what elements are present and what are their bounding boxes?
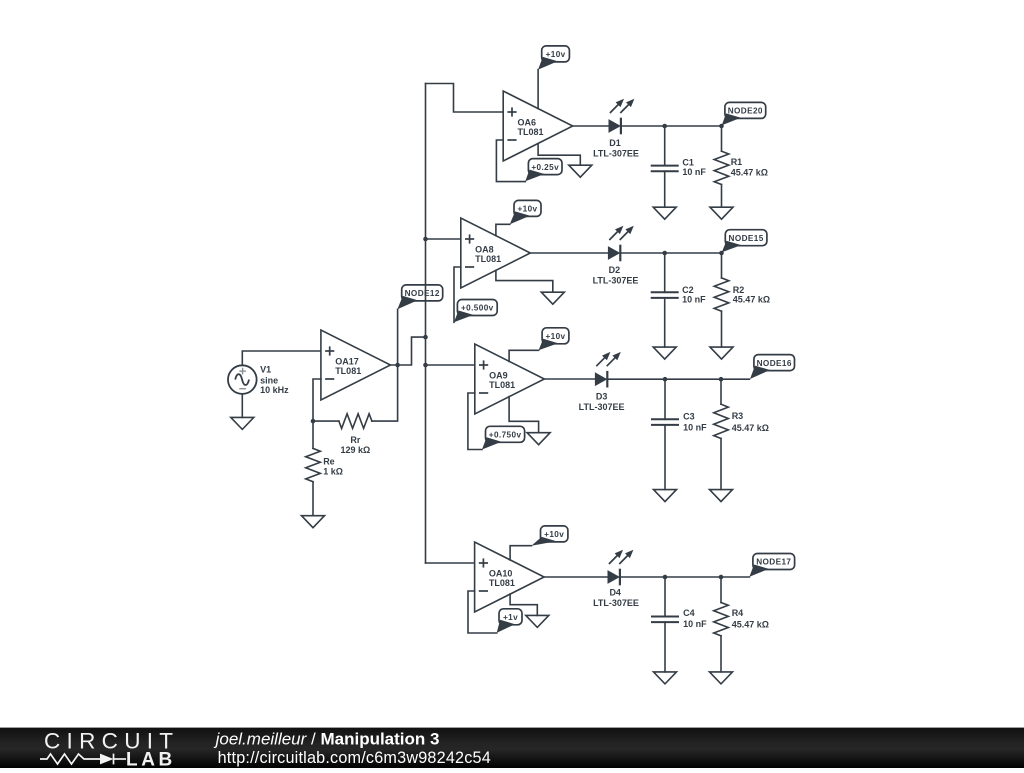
wire NODE12 bus vertical (425, 84, 427, 564)
svg-text:NODE17: NODE17 (756, 558, 791, 567)
svg-text:+10v: +10v (517, 205, 537, 214)
power flag +10v OA10 (531, 526, 568, 546)
svg-text:NODE15: NODE15 (729, 234, 764, 243)
svg-text:TL081: TL081 (335, 366, 361, 376)
svg-text:45.47 kΩ: 45.47 kΩ (731, 168, 768, 178)
wire bus to OA9 + input (426, 364, 475, 366)
ground C4 (654, 672, 677, 684)
svg-text:Rr: Rr (350, 435, 360, 445)
wire OA10 V+ to +10v flag (510, 546, 531, 560)
wire OA8 V- to ground (496, 270, 553, 292)
ground OA8 V- (541, 292, 564, 304)
op-amp OA10 (475, 542, 544, 612)
svg-text:45.47 kΩ: 45.47 kΩ (733, 295, 770, 305)
junction C1 top (662, 124, 667, 129)
svg-text:129 kΩ: 129 kΩ (341, 445, 371, 455)
svg-text:http://circuitlab.com/c6m3w982: http://circuitlab.com/c6m3w98242c54 (218, 749, 491, 767)
svg-text:LTL-307EE: LTL-307EE (593, 598, 639, 608)
node flag NODE12 (397, 285, 442, 309)
svg-text:45.47 kΩ: 45.47 kΩ (732, 423, 769, 433)
junction R4 top (719, 575, 724, 580)
svg-text:10 kHz: 10 kHz (260, 385, 289, 395)
junction OA17 output (395, 363, 400, 368)
node flag NODE16 (750, 355, 795, 379)
resistor R4 (714, 603, 769, 636)
resistor R3 (714, 404, 769, 438)
wire OA8 output to D2 (530, 252, 608, 254)
ground R3 (710, 490, 733, 502)
wire D1 to NODE20 (621, 125, 722, 127)
svg-text:D1: D1 (609, 138, 621, 148)
power flag +10v OA8 (510, 200, 541, 224)
svg-text:NODE20: NODE20 (728, 107, 763, 116)
svg-text:+10v: +10v (546, 50, 566, 59)
wire OA17 - input to feedback node (313, 379, 321, 421)
svg-text:C4: C4 (683, 608, 695, 618)
wire bus top jog to OA6 + input (426, 84, 504, 113)
capacitor C2 (651, 285, 706, 305)
ground C2 (653, 347, 676, 359)
wire OA8 - input to +0.500v (454, 267, 461, 322)
svg-text:OA10: OA10 (489, 568, 513, 578)
svg-text:TL081: TL081 (489, 578, 515, 588)
ground V1 (231, 417, 254, 429)
svg-text:OA9: OA9 (489, 370, 508, 380)
wire R4 top lead (720, 577, 722, 603)
svg-text:+1v: +1v (503, 613, 518, 622)
svg-text:45.47 kΩ: 45.47 kΩ (732, 620, 769, 630)
resistor R1 (714, 151, 768, 184)
voltage flag +0.750v (482, 426, 525, 449)
svg-text:+10v: +10v (544, 530, 564, 539)
wire R2 bottom lead (721, 311, 723, 347)
wire R2 top lead (721, 253, 723, 278)
junction R3 top (719, 377, 724, 382)
wire V1 top to OA17 + input (242, 351, 321, 365)
wire OA9 V- to ground (509, 397, 538, 433)
wire R3 bottom lead (720, 439, 722, 490)
wire C1 top lead (664, 126, 666, 166)
wire OA17 output jog to bus (390, 337, 425, 365)
svg-text:LAB: LAB (126, 750, 176, 769)
ground OA10 V- (526, 615, 549, 627)
junction C2 top (662, 251, 667, 256)
svg-text:R3: R3 (732, 411, 744, 421)
wire C4 top lead (664, 577, 666, 617)
wire OA10 output to D4 (544, 576, 607, 578)
svg-text:NODE16: NODE16 (757, 359, 792, 368)
junction R2 top / NODE15 (719, 251, 724, 256)
svg-text:+0.750v: +0.750v (489, 431, 522, 440)
svg-text:sine: sine (260, 375, 278, 385)
wire OA10 - input to +1v (468, 591, 497, 633)
node flag NODE15 (722, 230, 767, 253)
svg-text:OA17: OA17 (335, 356, 359, 366)
wire D4 to NODE17 (620, 576, 750, 578)
svg-text:V1: V1 (260, 365, 271, 375)
junction R1 top / NODE20 (719, 124, 724, 129)
svg-text:C3: C3 (683, 412, 695, 422)
wire OA9 V+ to +10v flag (509, 350, 538, 361)
junction C3 top (663, 377, 668, 382)
svg-text:LTL-307EE: LTL-307EE (593, 149, 639, 159)
voltage flag +1v (497, 609, 522, 633)
ground C3 (654, 490, 677, 502)
svg-text:C1: C1 (682, 157, 694, 167)
svg-text:TL081: TL081 (489, 380, 515, 390)
ground R2 (710, 347, 733, 359)
svg-text:+10v: +10v (545, 332, 565, 341)
power flag +10v OA6 (538, 46, 569, 70)
wire R1 top lead (721, 126, 723, 151)
wire R3 top lead (720, 379, 722, 404)
svg-text:OA8: OA8 (475, 244, 494, 254)
wire C3 bottom lead (664, 425, 666, 490)
svg-text:1 kΩ: 1 kΩ (323, 466, 343, 476)
diode D3 LTL-307EE (579, 352, 625, 412)
wire OA10 V- to ground (510, 594, 537, 615)
svg-text:LTL-307EE: LTL-307EE (593, 276, 639, 286)
wire OA6 output to D1 (573, 125, 609, 127)
wire R1 bottom lead (721, 185, 723, 208)
junction bus OA8 (423, 237, 428, 242)
diode D1 LTL-307EE (593, 99, 639, 159)
junction bus OA17 (423, 335, 428, 340)
ground R4 (710, 672, 733, 684)
wire Re to ground (312, 482, 314, 516)
svg-text:TL081: TL081 (475, 254, 501, 264)
node flag NODE17 (749, 554, 794, 577)
wire OA6 V- to ground (538, 144, 580, 166)
wire C3 top lead (664, 379, 666, 419)
ground OA9 V- (527, 433, 550, 445)
voltage flag +0.500v (454, 300, 497, 323)
svg-text:Re: Re (323, 456, 335, 466)
wire C2 bottom lead (664, 298, 666, 347)
op-amp OA17 (321, 330, 391, 400)
svg-text:C2: C2 (682, 285, 694, 295)
voltage flag +0.25v (525, 159, 562, 182)
wire R4 bottom lead (720, 636, 722, 672)
svg-text:10 nF: 10 nF (682, 295, 706, 305)
wire OA8 V+ to +10v flag (496, 224, 510, 235)
node flag NODE20 (722, 102, 766, 125)
wire D2 to NODE15 (620, 252, 721, 254)
svg-text:D2: D2 (609, 265, 621, 275)
svg-text:joel.meilleur / Manipulation 3: joel.meilleur / Manipulation 3 (214, 730, 440, 749)
CircuitLab logo (40, 729, 179, 771)
junction C4 top (663, 575, 668, 580)
power flag +10v OA9 (539, 328, 569, 351)
wire +10v flag to OA6 V+ (537, 70, 539, 109)
op-amp OA8 (461, 218, 531, 288)
resistor Rr (339, 414, 372, 429)
ground R1 (710, 207, 733, 219)
wire feedback node to Rr (313, 420, 339, 422)
diode D2 LTL-307EE (593, 226, 639, 286)
svg-text:+0.500v: +0.500v (461, 304, 494, 313)
wire D3 to NODE16 (607, 378, 749, 380)
capacitor C4 (651, 608, 707, 629)
svg-text:OA6: OA6 (518, 117, 537, 127)
wire Rr to OA17 output (372, 309, 398, 421)
svg-text:LTL-307EE: LTL-307EE (579, 402, 625, 412)
op-amp OA9 (475, 344, 545, 414)
resistor R2 (714, 278, 770, 311)
svg-text:D4: D4 (609, 588, 621, 598)
diode D4 LTL-307EE (593, 550, 639, 608)
svg-text:R2: R2 (733, 285, 745, 295)
op-amp OA6 (503, 91, 573, 161)
wire C2 top lead (664, 253, 666, 292)
capacitor C1 (651, 157, 707, 177)
wire V1 bottom to ground (241, 394, 243, 418)
resistor Re (306, 448, 343, 481)
svg-text:D3: D3 (596, 391, 608, 401)
svg-text:10 nF: 10 nF (683, 422, 707, 432)
capacitor C3 (651, 412, 707, 433)
wire bus to OA10 + input (426, 562, 475, 564)
svg-text:R1: R1 (731, 157, 743, 167)
svg-text:R4: R4 (732, 608, 744, 618)
wire OA9 output to D3 (544, 378, 595, 380)
svg-text:10 nF: 10 nF (683, 619, 707, 629)
ground Re (302, 516, 325, 528)
wire OA9 - input to +0.750v (468, 393, 482, 450)
wire OA6 - input to +0.25v (496, 140, 525, 182)
svg-text:NODE12: NODE12 (405, 289, 440, 298)
ground C1 (653, 207, 676, 219)
junction feedback node (311, 419, 316, 424)
wire C1 bottom lead (664, 171, 666, 207)
svg-text:10 nF: 10 nF (682, 167, 706, 177)
wire C4 bottom lead (664, 622, 666, 672)
ground OA6 V- (569, 165, 592, 177)
voltage source V1 (228, 365, 289, 396)
footer bar (0, 728, 1024, 768)
svg-text:+0.25v: +0.25v (531, 163, 559, 172)
svg-text:TL081: TL081 (518, 127, 544, 137)
junction bus OA9 (423, 363, 428, 368)
wire feedback node to Re (312, 421, 314, 448)
wire bus to OA8 + input (426, 238, 461, 240)
